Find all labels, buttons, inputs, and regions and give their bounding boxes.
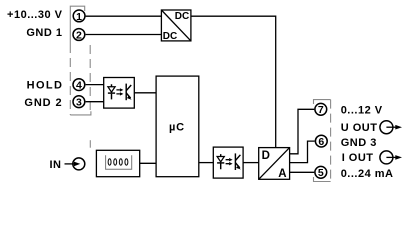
wire terminal4 to optocoupler U1 xyxy=(86,84,104,86)
svg-text:GND 2: GND 2 xyxy=(24,97,62,109)
svg-text:GND 1: GND 1 xyxy=(26,27,62,39)
IN input symbol xyxy=(65,158,85,170)
optocoupler U2 xyxy=(213,147,243,178)
wire terminal2 to DC/DC xyxy=(86,34,162,36)
svg-text:U OUT: U OUT xyxy=(341,122,378,134)
wire DC/DC to D/A supply xyxy=(191,16,276,147)
counter digits 0000 xyxy=(108,159,128,165)
svg-text:1: 1 xyxy=(76,11,82,23)
wire counter to uC xyxy=(140,162,156,164)
svg-text:GND 3: GND 3 xyxy=(341,137,377,149)
D/A converter xyxy=(259,148,290,181)
svg-text:0...24 mA: 0...24 mA xyxy=(341,168,394,180)
microcontroller uC xyxy=(156,76,199,177)
I OUT output symbol xyxy=(380,151,402,164)
svg-text:0...12 V: 0...12 V xyxy=(341,105,383,117)
pulse counter block xyxy=(96,150,139,176)
wire D/A to terminal7 xyxy=(290,109,315,154)
svg-text:DC: DC xyxy=(175,11,189,22)
wire uC to optocoupler U2 xyxy=(199,162,214,164)
svg-text:5: 5 xyxy=(318,167,324,179)
wire D/A to terminal5 xyxy=(290,171,315,173)
wire optocoupler U1 to uC xyxy=(134,92,156,94)
terminal 2 xyxy=(73,29,85,42)
terminal 1 xyxy=(73,10,85,23)
svg-text:I OUT: I OUT xyxy=(342,152,374,164)
svg-text:6: 6 xyxy=(318,136,324,148)
terminal 3 xyxy=(73,96,85,109)
optocoupler U1 xyxy=(104,78,135,109)
terminal 5 xyxy=(315,166,327,179)
svg-text:4: 4 xyxy=(76,80,82,92)
wire D/A to terminal6 xyxy=(290,141,315,163)
terminal 7 xyxy=(315,103,327,116)
housing outline left terminal column (gray) xyxy=(70,6,91,148)
wire terminal3 to optocoupler U1 xyxy=(86,101,104,103)
wire optocoupler U2 to D/A xyxy=(243,162,259,164)
terminal 6 xyxy=(315,135,327,148)
terminal 4 xyxy=(73,79,85,92)
svg-text:D: D xyxy=(262,150,270,162)
svg-text:HOLD: HOLD xyxy=(27,79,64,91)
wire terminal1 to DC/DC xyxy=(86,15,162,17)
svg-text:7: 7 xyxy=(318,104,324,116)
svg-text:µC: µC xyxy=(169,122,185,134)
housing outline right terminal column (gray) xyxy=(314,100,331,182)
svg-text:3: 3 xyxy=(76,97,82,109)
svg-text:DC: DC xyxy=(163,31,177,42)
svg-text:2: 2 xyxy=(76,29,82,41)
svg-text:IN: IN xyxy=(50,159,62,171)
svg-text:A: A xyxy=(278,168,286,180)
svg-text:+10...30 V: +10...30 V xyxy=(7,9,63,21)
DC/DC converter xyxy=(161,10,191,42)
U OUT output symbol xyxy=(380,121,402,134)
